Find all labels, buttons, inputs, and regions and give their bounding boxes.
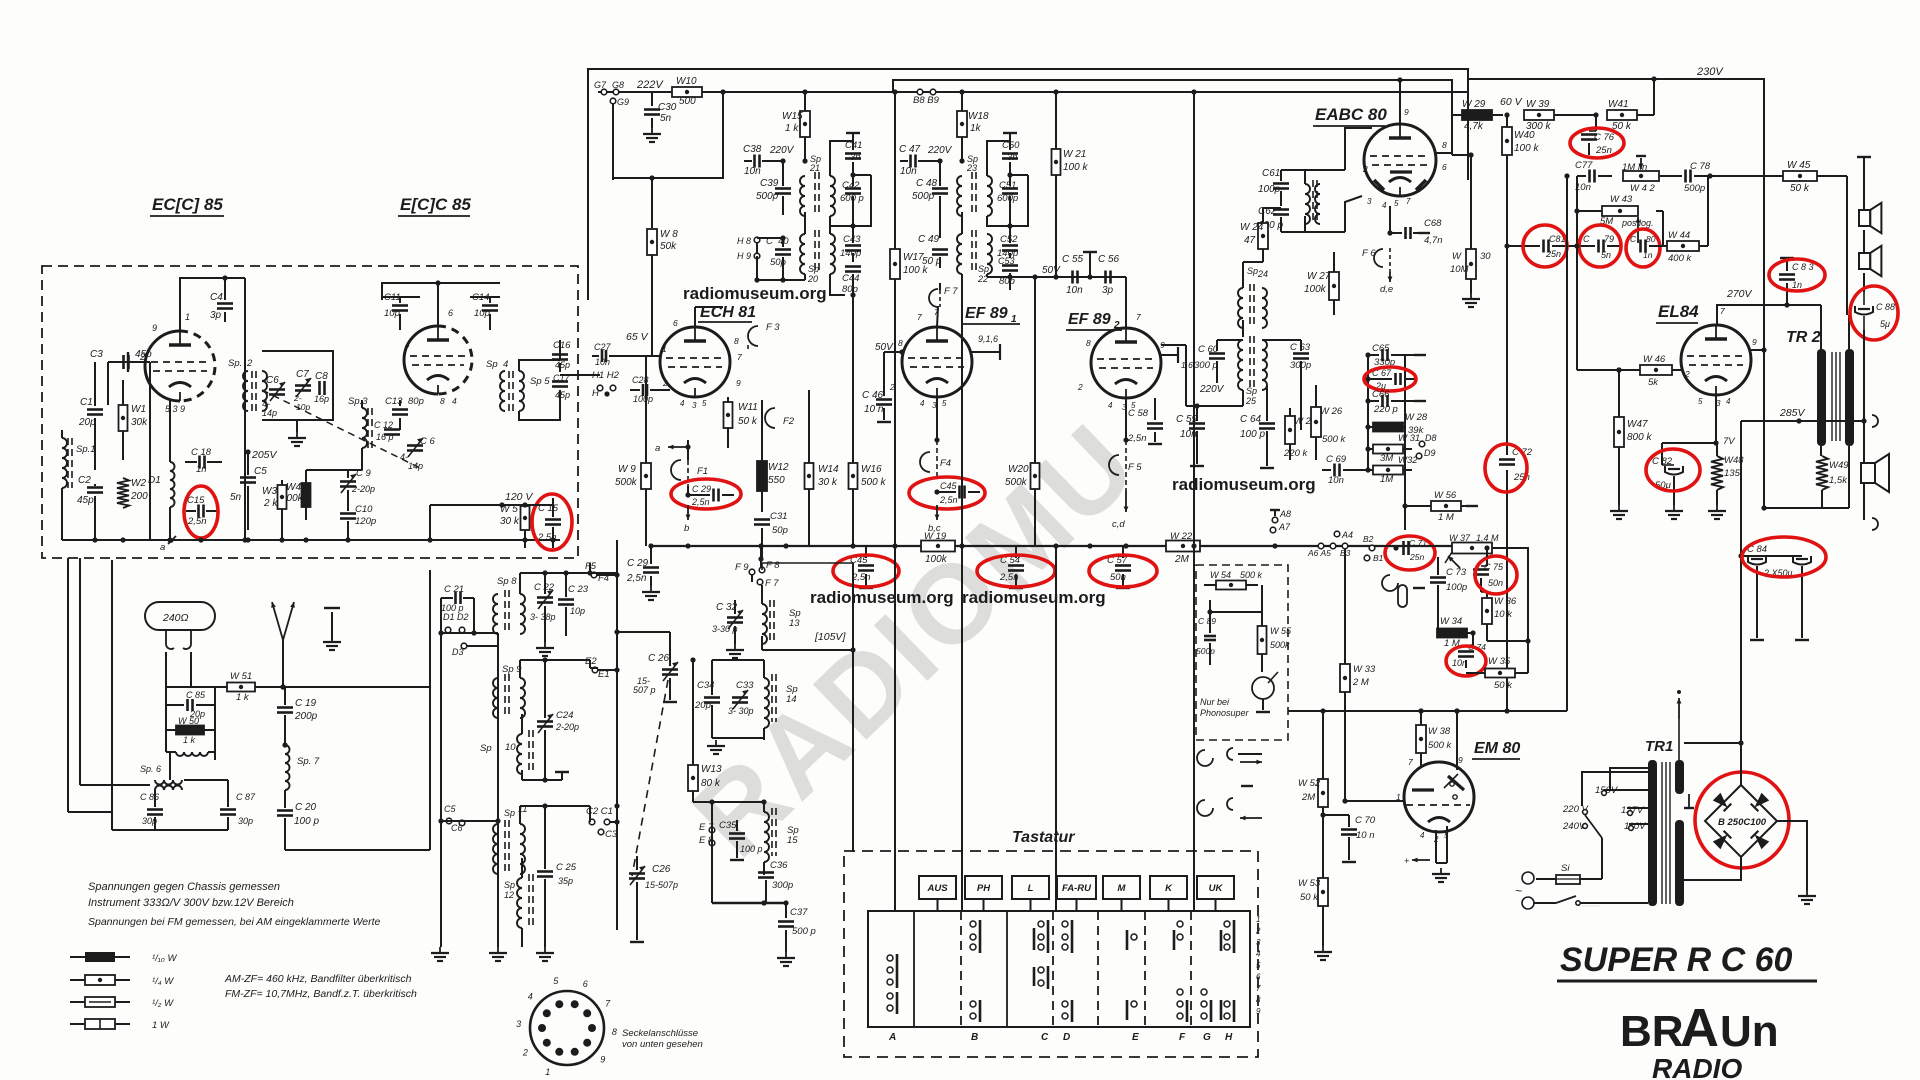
svg-text:5n: 5n <box>1601 250 1611 260</box>
capacitor C8 <box>318 381 321 395</box>
fuse Si <box>1556 875 1580 884</box>
contacts F top <box>1177 921 1183 927</box>
capacitor C37 <box>785 903 787 918</box>
svg-text:35p: 35p <box>558 876 573 886</box>
svg-text:3p: 3p <box>210 310 222 321</box>
contact F2 <box>765 408 775 428</box>
wire C21 box <box>440 598 442 633</box>
keyboard divider <box>1144 911 1146 1027</box>
wire Sp9 sec <box>520 659 590 661</box>
svg-text:a: a <box>655 443 660 454</box>
capacitor C40 <box>775 248 791 251</box>
svg-text:500 k: 500 k <box>1322 434 1346 445</box>
svg-text:500 k: 500 k <box>861 477 886 488</box>
wire speaker column <box>1857 156 1871 158</box>
svg-text:C26: C26 <box>652 864 671 875</box>
speaker small 2 <box>1859 253 1870 269</box>
red circle C88 <box>1850 286 1898 340</box>
wire V7 pin9 <box>1456 711 1458 770</box>
svg-text:4: 4 <box>1420 831 1425 840</box>
svg-text:W 31: W 31 <box>1398 433 1420 444</box>
svg-text:W11: W11 <box>738 402 758 413</box>
svg-text:8: 8 <box>1442 140 1447 150</box>
svg-text:100p: 100p <box>633 394 653 404</box>
svg-text:F 7: F 7 <box>944 286 958 297</box>
svg-text:Sp 5: Sp 5 <box>530 376 550 387</box>
resistor W34 <box>1437 629 1467 638</box>
svg-text:C 87: C 87 <box>236 792 256 802</box>
svg-text:50 k: 50 k <box>1300 892 1319 903</box>
svg-text:BR: BR <box>1620 1007 1684 1056</box>
ground top <box>331 612 333 640</box>
svg-text:D1 D2: D1 D2 <box>443 612 469 622</box>
coil Sp10 <box>517 734 522 774</box>
svg-text:4: 4 <box>1108 401 1113 410</box>
svg-text:~: ~ <box>1515 884 1522 898</box>
voltage terminals <box>1602 791 1607 796</box>
wire osc mid <box>306 469 362 471</box>
wire W46 left <box>1616 367 1621 372</box>
resistor W13 <box>688 765 698 791</box>
svg-text:B1: B1 <box>1373 553 1384 563</box>
capacitor C4 <box>224 278 226 300</box>
svg-text:C4: C4 <box>210 292 223 303</box>
svg-text:9: 9 <box>736 378 741 388</box>
capacitor C3 <box>108 361 150 363</box>
wire W8 branch <box>613 92 723 178</box>
capacitor C86 <box>147 808 163 811</box>
svg-text:H: H <box>592 388 599 399</box>
trimmer C22 <box>537 596 553 599</box>
svg-text:c,d: c,d <box>1112 519 1125 530</box>
tube V2 ECH81 <box>660 327 730 397</box>
svg-text:C42: C42 <box>842 180 860 191</box>
svg-text:500p: 500p <box>1196 646 1215 656</box>
transformer TR2 secondary <box>1845 349 1854 446</box>
resistor W9 <box>641 463 651 489</box>
svg-text:25n: 25n <box>1595 145 1612 156</box>
wire V6 g2 <box>1751 349 1764 351</box>
svg-text:C 63: C 63 <box>1290 342 1311 353</box>
tube V6 EL84 <box>1681 325 1751 395</box>
red circle C45b <box>833 555 899 587</box>
red circle C29a <box>671 479 741 509</box>
svg-text:5: 5 <box>702 399 707 408</box>
wire sec down <box>852 295 854 330</box>
wire W44 up <box>1707 176 1709 246</box>
contacts C mid <box>1038 967 1044 973</box>
red circle C71 <box>1385 536 1435 570</box>
svg-text:1: 1 <box>662 344 667 354</box>
resistor W29 <box>1462 110 1492 120</box>
capacitor C29a <box>685 492 690 497</box>
svg-text:E2: E2 <box>585 656 597 667</box>
svg-text:3n: 3n <box>850 152 861 163</box>
svg-text:14p: 14p <box>262 408 277 418</box>
svg-text:140p: 140p <box>840 248 861 259</box>
svg-text:4: 4 <box>920 399 925 408</box>
key button M <box>1103 876 1140 899</box>
keyboard divider <box>1006 911 1008 1027</box>
svg-text:M: M <box>1118 883 1127 894</box>
svg-text:270V: 270V <box>1726 288 1753 300</box>
red circle C75 <box>1475 556 1517 594</box>
svg-text:Sp. 6: Sp. 6 <box>140 764 161 774</box>
svg-text:10p: 10p <box>474 308 490 319</box>
svg-text:C45: C45 <box>940 481 958 491</box>
svg-text:2: 2 <box>1362 164 1368 174</box>
svg-text:C43: C43 <box>843 234 861 245</box>
bus junction dots <box>648 543 653 548</box>
contact F5 <box>1109 455 1119 475</box>
IF1 coil Sp21 <box>800 176 805 216</box>
keyboard divider <box>1052 911 1054 1027</box>
capacitor C47 <box>909 155 912 168</box>
svg-text:Sp: Sp <box>978 264 989 274</box>
wire V1a grid stub <box>128 361 150 363</box>
svg-text:10n: 10n <box>1328 475 1344 486</box>
svg-text:+: + <box>1404 856 1409 866</box>
svg-text:100 p: 100 p <box>294 816 319 827</box>
svg-text:A4: A4 <box>1341 530 1353 540</box>
svg-text:E[C]C 85: E[C]C 85 <box>400 195 471 214</box>
svg-text:6: 6 <box>583 979 588 989</box>
wire V5 pin8 <box>1436 152 1452 154</box>
wire 270V rail <box>1717 305 1821 325</box>
resistor W24 <box>1258 223 1268 249</box>
svg-text:W 27: W 27 <box>1307 271 1331 282</box>
svg-text:45p: 45p <box>135 349 152 360</box>
svg-text:W 4 2: W 4 2 <box>1630 183 1656 194</box>
resistor W25 <box>1285 416 1295 444</box>
svg-text:C 69: C 69 <box>1326 454 1347 465</box>
svg-text:500p: 500p <box>756 191 779 202</box>
red circle C82 <box>1646 449 1700 491</box>
tube V1b ECC85 triode <box>404 326 438 394</box>
svg-text:W 46: W 46 <box>1643 354 1666 365</box>
trimmer C9 <box>340 480 356 483</box>
keyboard divider <box>1097 911 1099 1027</box>
resistor W31 <box>1373 445 1403 454</box>
svg-text:2,5n: 2,5n <box>187 516 207 527</box>
svg-text:10n: 10n <box>744 166 761 177</box>
svg-text:120p: 120p <box>355 516 376 527</box>
svg-text:SUPER R C 60: SUPER R C 60 <box>1560 941 1792 979</box>
resistor W20 <box>1031 463 1040 489</box>
node B8 B9 terminals <box>917 89 923 95</box>
svg-text:F 8: F 8 <box>766 560 780 571</box>
svg-text:21: 21 <box>809 163 820 173</box>
capacitor C1 <box>87 408 103 411</box>
svg-text:Sp: Sp <box>480 743 492 754</box>
resistor W16 <box>849 463 858 489</box>
heater arrow <box>1678 698 1680 719</box>
svg-text:W 8: W 8 <box>660 229 678 240</box>
red circle C45a <box>909 477 985 509</box>
tube V3 EF89-1 <box>902 327 972 397</box>
svg-text:50 k: 50 k <box>1790 183 1810 194</box>
svg-text:30p: 30p <box>238 816 253 826</box>
wire mid column x1567 <box>1566 176 1568 711</box>
red circle C76 <box>1570 128 1624 158</box>
capacitor C53 <box>1002 264 1018 267</box>
svg-text:2M: 2M <box>1174 554 1190 565</box>
svg-text:C66: C66 <box>1372 389 1390 400</box>
svg-text:4-: 4- <box>400 452 408 462</box>
contacts F bottom <box>1177 989 1183 995</box>
resistor W46 <box>1640 365 1672 375</box>
svg-text:45p: 45p <box>77 495 94 506</box>
wire V4 g3 bar <box>1161 354 1178 356</box>
svg-text:K: K <box>1165 883 1173 894</box>
svg-text:Sp: Sp <box>1246 386 1257 396</box>
svg-text:W: W <box>1452 251 1462 262</box>
svg-text:W 34: W 34 <box>1440 616 1462 627</box>
svg-text:C33: C33 <box>736 680 754 691</box>
svg-text:B8 B9: B8 B9 <box>913 95 940 106</box>
svg-text:1: 1 <box>185 312 190 322</box>
wire grid1 row <box>578 374 600 376</box>
svg-text:8: 8 <box>898 338 903 348</box>
capacitor C83 <box>1786 260 1788 271</box>
capacitor C17 <box>552 380 568 383</box>
antenna <box>282 640 284 687</box>
gang dashed line <box>632 680 668 876</box>
wire EL84 g1 <box>1576 246 1578 370</box>
wire 50V row <box>987 276 1126 278</box>
transformer TR2 core <box>1831 352 1833 441</box>
wire AF down <box>1404 478 1406 530</box>
contacts H bottom <box>1224 1001 1230 1007</box>
svg-text:9: 9 <box>1458 755 1463 765</box>
svg-text:47: 47 <box>1244 235 1256 246</box>
jack symbols right <box>1197 750 1213 766</box>
svg-text:A: A <box>1680 998 1719 1058</box>
legend resistor 1/10W <box>70 956 85 958</box>
svg-text:C35: C35 <box>719 820 737 831</box>
svg-text:3p: 3p <box>1102 285 1114 296</box>
svg-text:1: 1 <box>545 1067 550 1077</box>
svg-text:20: 20 <box>807 274 818 284</box>
svg-text:¹/₁₀ W: ¹/₁₀ W <box>152 953 177 964</box>
svg-text:H: H <box>1225 1032 1233 1043</box>
rectifier B250C100 diamond <box>1705 785 1777 857</box>
svg-text:25: 25 <box>1245 396 1257 406</box>
svg-text:120 V: 120 V <box>505 491 533 503</box>
svg-text:W 33: W 33 <box>1353 664 1376 675</box>
capacitor C72 <box>1499 458 1515 461</box>
wire W37 right <box>1492 548 1528 641</box>
svg-text:1n: 1n <box>196 464 207 475</box>
capacitor C19 <box>277 706 293 709</box>
IF3 secondary <box>987 141 1010 176</box>
trimmer C32 <box>727 616 743 619</box>
wire lamp leads <box>165 652 167 687</box>
svg-text:C 29: C 29 <box>692 484 711 494</box>
svg-text:10 n: 10 n <box>1356 830 1375 841</box>
capacitor C16 <box>552 353 568 356</box>
IF3 coil Sp23 <box>957 176 962 216</box>
svg-text:79: 79 <box>1604 234 1614 244</box>
capacitor C35 <box>729 832 745 835</box>
svg-text:2,5n: 2,5n <box>939 495 958 505</box>
svg-text:9: 9 <box>152 323 157 333</box>
red circle C15b <box>532 494 572 550</box>
svg-text:C 56: C 56 <box>1098 254 1120 265</box>
svg-text:25n: 25n <box>1545 249 1561 259</box>
resistor W17 <box>890 249 900 279</box>
svg-text:2M: 2M <box>1301 792 1315 803</box>
svg-text:285V: 285V <box>1779 407 1806 419</box>
resistor W52 <box>1318 779 1328 807</box>
wire hex grid <box>625 355 660 357</box>
node 230V junction <box>1651 76 1656 81</box>
svg-text:2: 2 <box>522 1048 528 1058</box>
capacitor C63 <box>1293 352 1309 355</box>
svg-text:1 k: 1 k <box>183 735 196 745</box>
capacitor C15a <box>197 505 200 518</box>
svg-text:4,7k: 4,7k <box>1464 121 1484 132</box>
resistor W53 <box>1318 878 1328 906</box>
wire V1b top left <box>382 283 438 300</box>
svg-text:6: 6 <box>673 318 678 328</box>
wire coils gnd row <box>439 947 441 953</box>
wire IF1 gnd row <box>757 279 805 281</box>
svg-text:W 21: W 21 <box>1063 149 1086 160</box>
svg-text:14p: 14p <box>408 461 423 471</box>
svg-text:C 88: C 88 <box>1876 302 1895 312</box>
svg-text:1k: 1k <box>970 123 982 134</box>
svg-text:80p: 80p <box>842 284 858 295</box>
svg-text:W 9: W 9 <box>618 464 636 475</box>
capacitor C50 <box>1009 141 1011 150</box>
jack symbols mid <box>1382 575 1398 591</box>
svg-text:W41: W41 <box>1608 99 1629 110</box>
resistor W56 <box>1431 501 1461 511</box>
svg-text:W10: W10 <box>676 76 697 87</box>
svg-text:C 75: C 75 <box>1484 562 1504 572</box>
svg-text:EM 80: EM 80 <box>1474 740 1520 757</box>
coil Sp25 <box>1238 340 1243 390</box>
contacts B top <box>970 921 976 927</box>
svg-text:45p: 45p <box>555 360 570 370</box>
svg-text:d,e: d,e <box>1380 284 1393 295</box>
svg-text:Sp: Sp <box>504 880 515 890</box>
svg-text:8: 8 <box>734 336 739 346</box>
svg-text:100k: 100k <box>925 554 948 565</box>
trimmer C33 <box>732 696 748 699</box>
keyboard divider <box>1190 911 1192 1027</box>
svg-text:500k: 500k <box>1270 640 1290 650</box>
coil Sp2 <box>243 371 248 411</box>
svg-text:D: D <box>1063 1032 1070 1043</box>
key button AUS <box>919 876 956 899</box>
svg-text:3-30 p: 3-30 p <box>712 624 738 634</box>
svg-text:C 48: C 48 <box>916 178 938 189</box>
svg-text:C 20: C 20 <box>295 802 317 813</box>
svg-text:9: 9 <box>1752 337 1757 347</box>
svg-text:2,5n: 2,5n <box>1127 433 1147 444</box>
resistor W38 <box>1416 725 1426 753</box>
wire 222V bus <box>598 91 1468 93</box>
svg-text:300p: 300p <box>1290 360 1311 371</box>
svg-text:[105V]: [105V] <box>814 631 846 643</box>
red circle C81 <box>1523 225 1567 267</box>
wire lamp box <box>165 687 167 705</box>
svg-text:4,7n: 4,7n <box>1424 235 1443 246</box>
node G7 G8 terminals <box>601 89 607 95</box>
FM tuner dashed box <box>42 266 578 558</box>
capacitor C44 <box>845 265 861 268</box>
node bc arrow <box>936 505 938 520</box>
node D3 terminal <box>461 643 467 649</box>
svg-text:5k: 5k <box>1648 377 1659 388</box>
wire C72 column <box>1506 246 1508 455</box>
svg-text:C 8 3: C 8 3 <box>1792 262 1814 272</box>
capacitor C64 <box>1259 422 1275 425</box>
svg-text:2-20p: 2-20p <box>555 722 579 732</box>
wire top frame <box>588 69 1468 300</box>
svg-text:W 29: W 29 <box>1462 99 1486 110</box>
wire IF1 link <box>853 174 871 176</box>
svg-text:C: C <box>1041 1032 1049 1043</box>
wire W40 to row <box>1506 176 1508 246</box>
capacitor C57 <box>1122 546 1124 558</box>
svg-text:C6: C6 <box>451 823 463 833</box>
Tastatur dashed box <box>844 851 1258 1057</box>
capacitor C46 <box>883 352 885 396</box>
red circle C72 <box>1485 444 1527 492</box>
svg-text:C3: C3 <box>605 829 618 840</box>
wire sec top <box>1846 176 1848 315</box>
node C3 terminal <box>598 829 604 835</box>
svg-text:C2: C2 <box>78 475 91 486</box>
contact F7 <box>929 289 938 307</box>
svg-text:2,5n: 2,5n <box>626 573 647 584</box>
svg-text:1 W: 1 W <box>152 1020 170 1031</box>
svg-text:D9: D9 <box>1424 448 1436 458</box>
svg-text:F2: F2 <box>783 416 795 427</box>
node A4 terminal <box>1334 531 1340 537</box>
capacitor C79 <box>1597 240 1600 253</box>
svg-text:4: 4 <box>1382 201 1387 210</box>
node cd arrow <box>1125 490 1127 512</box>
resistor W28 <box>1373 423 1403 432</box>
svg-text:W 22: W 22 <box>1170 531 1193 542</box>
svg-text:9: 9 <box>600 1054 605 1064</box>
capacitor C81 <box>1542 240 1545 253</box>
capacitor C68 <box>1404 227 1407 239</box>
svg-text:1n: 1n <box>1643 250 1653 260</box>
svg-text:5n: 5n <box>230 492 242 503</box>
wire Sp13 bottom <box>762 649 853 651</box>
resistor W2 zigzag <box>117 478 129 508</box>
svg-text:Sp: Sp <box>808 264 819 274</box>
svg-text:80p: 80p <box>408 396 424 407</box>
svg-text:10n: 10n <box>1452 658 1467 668</box>
resistor W45 <box>1783 171 1817 181</box>
key button L <box>1012 876 1049 899</box>
wire left column x617 <box>616 540 618 930</box>
svg-text:2-20p: 2-20p <box>351 484 375 494</box>
red circle C79 <box>1579 225 1621 267</box>
svg-text:1,6: 1,6 <box>1181 360 1193 370</box>
svg-text:C3: C3 <box>90 349 103 360</box>
node b arrow ECH81 <box>687 505 689 520</box>
svg-text:7: 7 <box>1256 984 1261 993</box>
svg-text:W 51: W 51 <box>230 671 252 682</box>
svg-text:Nur bei: Nur bei <box>1200 697 1230 707</box>
